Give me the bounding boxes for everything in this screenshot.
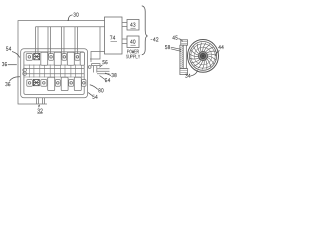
- wire connector to controller: [91, 52, 105, 63]
- brace 42: [142, 6, 148, 55]
- label 30: [74, 13, 79, 17]
- label 74: [110, 36, 115, 40]
- connector right T plug: [92, 64, 100, 73]
- duct lines bottom: [37, 98, 45, 104]
- leader 42 dash: [151, 38, 153, 40]
- label 54 left: [6, 47, 11, 51]
- label 43: [130, 23, 135, 27]
- connector leads right: [97, 69, 110, 74]
- label 42: [153, 38, 158, 42]
- motor bracket bottom flange: [180, 69, 188, 75]
- label 40: [130, 40, 135, 44]
- label 56: [103, 60, 108, 64]
- leader 38: [105, 73, 111, 76]
- leader 56: [100, 65, 103, 68]
- fan outer ring: [188, 40, 219, 73]
- fan ring 3: [191, 44, 215, 68]
- terminal stack left: [23, 68, 27, 72]
- battery module outer housing: [21, 49, 88, 98]
- wire drop pair 1: [36, 27, 39, 56]
- label 54 bottom: [93, 95, 98, 99]
- wires 74 to 43: [122, 23, 127, 27]
- wire bus line: [36, 26, 106, 28]
- leader 45: [178, 39, 182, 42]
- wires 74 to 40: [122, 39, 127, 44]
- label 44: [219, 45, 224, 49]
- label 36 mid-left: [2, 62, 7, 66]
- wire top boundary line 30: [18, 21, 105, 104]
- label 36 lower-left: [5, 82, 10, 86]
- wire bus to connector: [90, 27, 100, 59]
- label 32 underline: [37, 112, 42, 114]
- leader 44: [215, 51, 219, 56]
- leader 36 lower-left: [9, 77, 20, 82]
- wire drop pair 3: [62, 27, 65, 56]
- box 40: [127, 36, 139, 48]
- cell row bottom tall cells: [48, 77, 55, 90]
- leader 54 left: [12, 52, 20, 58]
- fan blades: [190, 43, 217, 70]
- fan ring mid: [194, 47, 212, 65]
- terminal X top: [34, 53, 40, 59]
- terminal X bottom: [33, 80, 39, 86]
- label 32: [38, 109, 43, 113]
- leader 54 bottom: [88, 93, 92, 96]
- leader 30: [68, 15, 72, 21]
- wire drop pair 4: [75, 27, 78, 56]
- label 38: [112, 73, 117, 77]
- leader 34: [191, 71, 198, 76]
- busbar band lines: [24, 68, 84, 73]
- leader 32 arrow: [38, 105, 40, 107]
- cell row bottom o-cells: [27, 80, 33, 87]
- label 45: [173, 36, 178, 40]
- fan hub center: [202, 55, 204, 57]
- band edge lines: [24, 65, 84, 77]
- cell row top tall cells: [41, 52, 48, 65]
- cell terminal circles top: [28, 56, 31, 59]
- controller box 74: [105, 17, 123, 54]
- leader 80: [90, 85, 98, 90]
- label 64: [105, 78, 110, 82]
- cell terminal circles bottom: [28, 82, 31, 85]
- motor bracket web white strip: [183, 45, 186, 68]
- leader 64: [100, 76, 106, 80]
- wire drop pair 2: [48, 27, 51, 56]
- leader 58 pair: [171, 47, 181, 51]
- cell row top o-cells: [26, 54, 32, 61]
- bracket hatch: [180, 46, 183, 68]
- fan inner ring: [189, 42, 216, 71]
- fan hub outer: [198, 51, 207, 60]
- box 43: [127, 20, 139, 31]
- motor bracket web hatched: [180, 45, 183, 68]
- label 58: [165, 45, 170, 49]
- leader 36 mid-left: [8, 64, 17, 66]
- battery module inner housing: [24, 52, 84, 95]
- label 80: [99, 89, 104, 93]
- motor bracket top flange: [181, 40, 188, 45]
- cell dividers: [29, 65, 81, 78]
- text power supply: [127, 50, 138, 53]
- fan hub inner: [200, 53, 205, 58]
- connector right circle: [88, 66, 91, 69]
- label 34: [185, 74, 190, 78]
